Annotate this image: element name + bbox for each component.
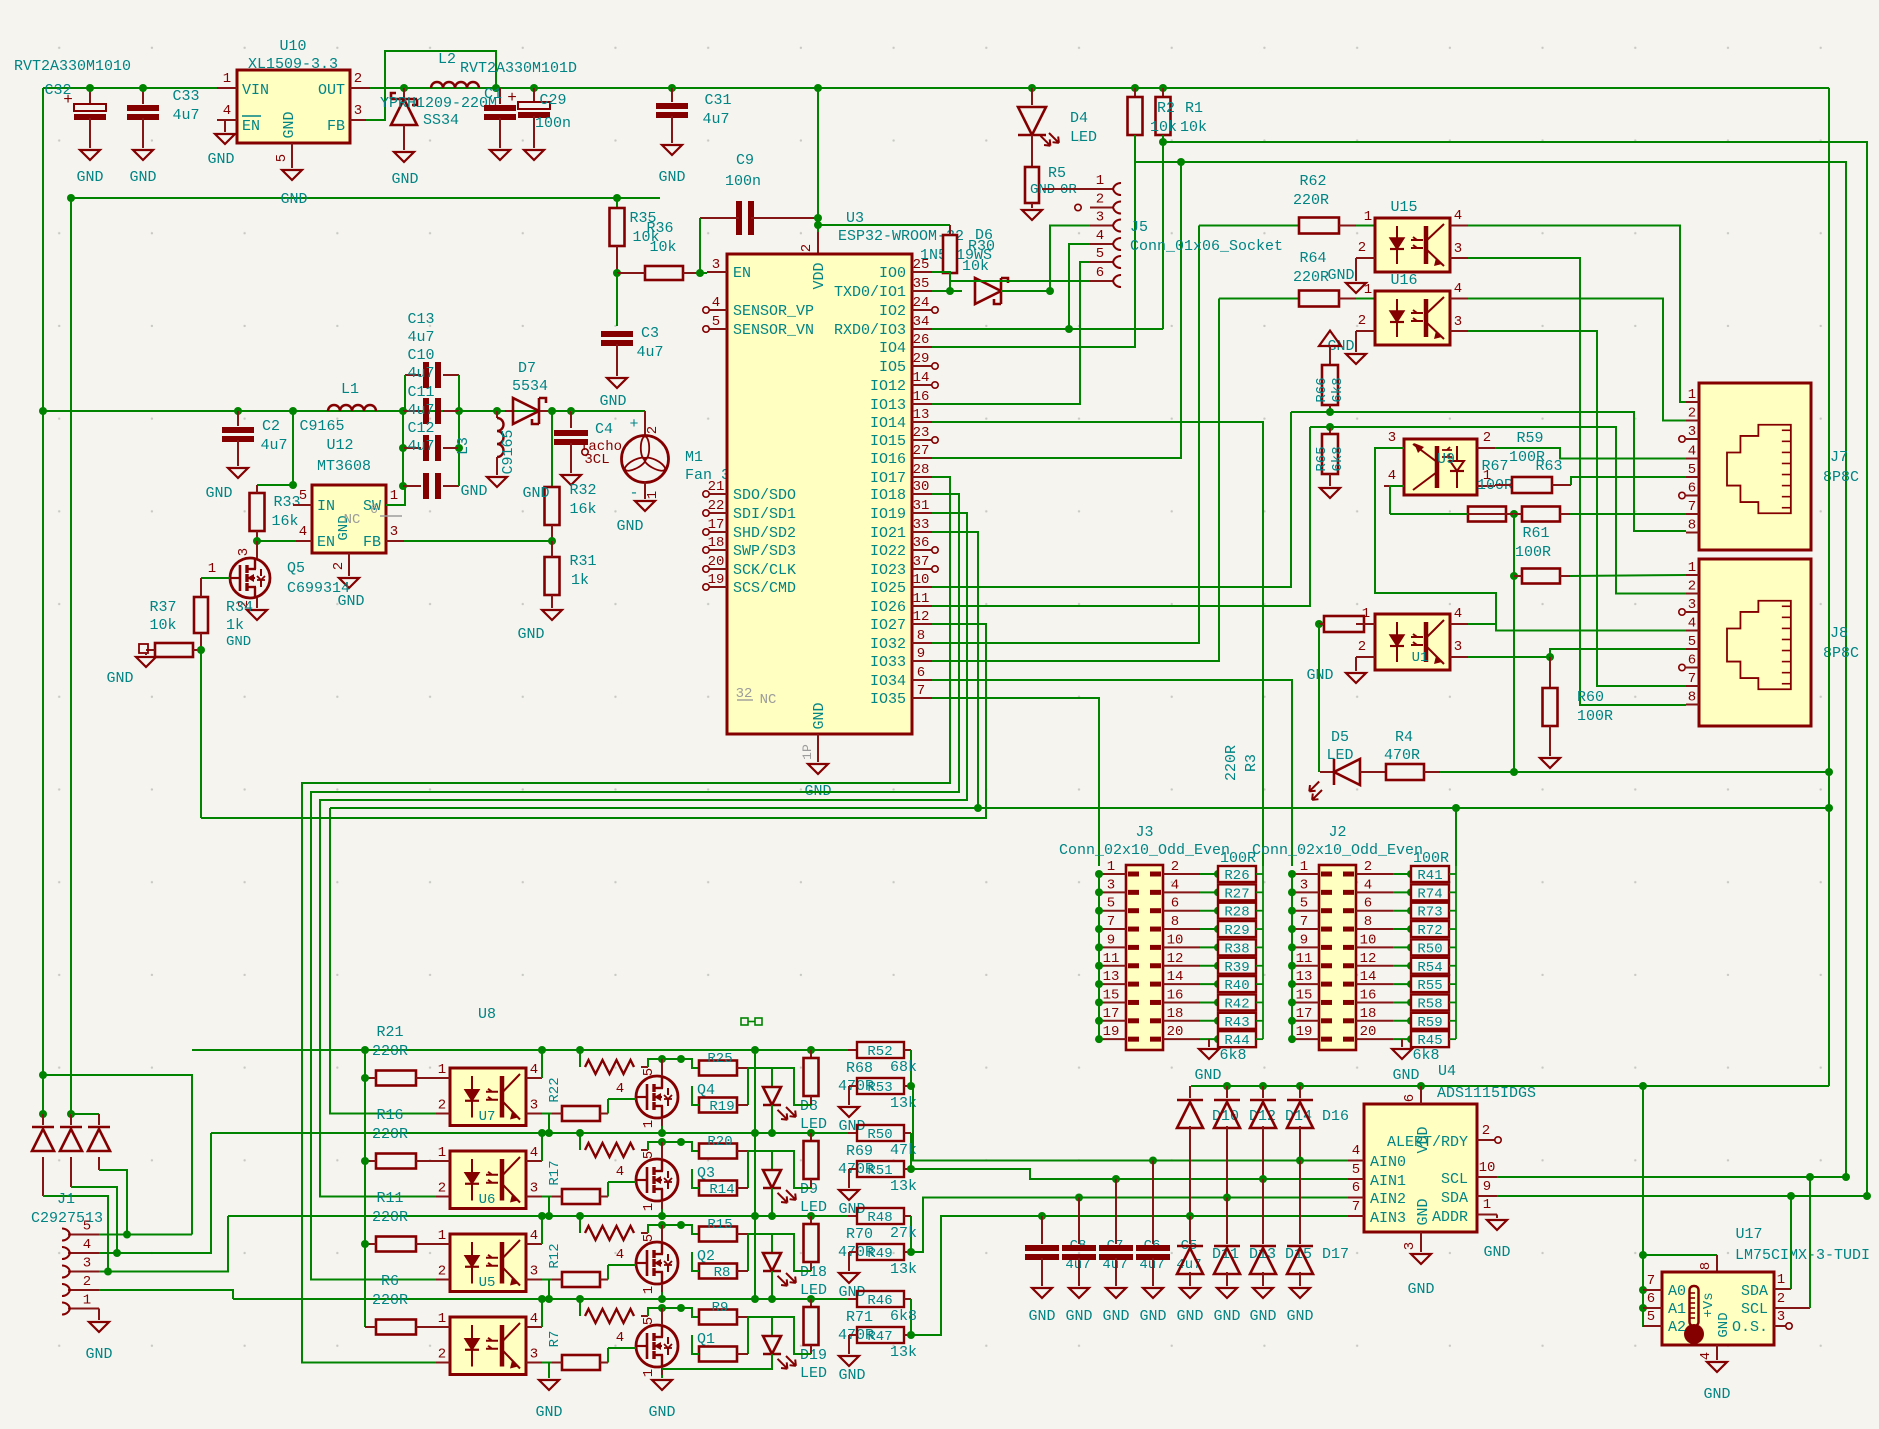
- svg-text:NC: NC: [344, 512, 361, 528]
- U3 pin 12 IO27: [870, 609, 932, 634]
- wire IO27 to bundle: [201, 624, 986, 818]
- svg-text:GND: GND: [616, 518, 643, 535]
- svg-text:10: 10: [913, 572, 930, 588]
- wire Q1 gate: [608, 1330, 715, 1348]
- LED D18 row3: [748, 1234, 827, 1299]
- transistor Q3 row2: [636, 1142, 678, 1211]
- wire J5 pin1 net: [1042, 188, 1090, 190]
- svg-text:GND: GND: [535, 1404, 562, 1421]
- svg-text:GND: GND: [226, 634, 251, 650]
- svg-text:R26: R26: [1224, 868, 1249, 884]
- svg-text:3: 3: [1107, 877, 1115, 893]
- resistor R66 6k8: [1314, 365, 1346, 412]
- LED D5: [1304, 624, 1360, 803]
- svg-text:R50: R50: [867, 1127, 892, 1143]
- svg-text:GND: GND: [1392, 1067, 1419, 1084]
- wire +Vs: [1643, 1255, 1717, 1272]
- svg-text:10: 10: [1479, 1160, 1496, 1176]
- svg-text:AIN1: AIN1: [1370, 1173, 1406, 1190]
- svg-text:4u7: 4u7: [172, 107, 199, 124]
- resistor R8 row3: [542, 1243, 608, 1287]
- labels R68-R71: [0, 0, 1, 1]
- wire IO21 wrap: [932, 532, 982, 812]
- svg-text:R11: R11: [376, 1190, 403, 1207]
- svg-text:LED: LED: [1326, 747, 1353, 764]
- capacitor C11: [399, 411, 463, 486]
- svg-text:20: 20: [1360, 1024, 1377, 1040]
- svg-text:13k: 13k: [890, 1178, 917, 1195]
- svg-text:IO14: IO14: [870, 415, 906, 432]
- svg-text:4: 4: [616, 1247, 624, 1263]
- resistor R52/R53 divider row1: [838, 1042, 917, 1135]
- IC U17 LM75CIMX-3-TUDI: [1662, 1226, 1870, 1345]
- svg-text:YPRH1209-220M: YPRH1209-220M: [380, 95, 497, 112]
- resistor R63 100R: [1495, 477, 1686, 493]
- resistor R15 row3: [681, 1217, 748, 1281]
- LED D19 row4: [748, 1317, 827, 1382]
- svg-text:7: 7: [917, 683, 925, 699]
- U3 pin 17 SHD/SD2: [703, 517, 796, 542]
- svg-text:SDA: SDA: [1741, 1283, 1768, 1300]
- svg-text:R28: R28: [1224, 905, 1249, 921]
- svg-text:U9: U9: [1437, 451, 1455, 468]
- svg-text:R40: R40: [1224, 978, 1249, 994]
- labels C13 C10 C11 C12: [407, 311, 434, 455]
- wire U1 pin4 net: [1468, 593, 1496, 624]
- svg-text:1P: 1P: [800, 744, 815, 760]
- U3 pin 3 EN: [707, 257, 751, 282]
- wire U17 supply branch: [1639, 1082, 1662, 1326]
- svg-text:O.S.: O.S.: [1732, 1319, 1768, 1336]
- wire U15 pin4 to J7 pin1: [1468, 226, 1699, 403]
- svg-text:5: 5: [1352, 1162, 1360, 1178]
- svg-text:6k8: 6k8: [1330, 446, 1346, 471]
- svg-text:1: 1: [1777, 1272, 1785, 1288]
- svg-text:SCS/CMD: SCS/CMD: [733, 580, 796, 597]
- LED D9 row2: [748, 1151, 827, 1216]
- U3 pin 20 SCK/CLK: [703, 554, 796, 579]
- wire IO0 to TXD node: [932, 272, 950, 291]
- U4 pin1 ADDR: [1477, 1197, 1511, 1261]
- svg-text:EN: EN: [242, 118, 260, 135]
- svg-text:GND: GND: [1102, 1308, 1129, 1325]
- svg-text:25: 25: [913, 257, 930, 273]
- svg-text:R53: R53: [867, 1080, 892, 1096]
- svg-text:U17: U17: [1735, 1226, 1762, 1243]
- power arrow R66: [1319, 331, 1341, 366]
- text RVT2A330M1010: [14, 58, 131, 75]
- svg-text:R59: R59: [1417, 1015, 1442, 1031]
- wire R19 link row1: [692, 1086, 699, 1105]
- svg-text:3: 3: [712, 257, 720, 273]
- svg-text:C9165: C9165: [500, 429, 517, 474]
- svg-text:R6: R6: [381, 1273, 399, 1290]
- svg-text:1: 1: [390, 488, 398, 504]
- U4 pin10 SCL: [1477, 1160, 1850, 1181]
- svg-text:1: 1: [641, 1369, 657, 1377]
- svg-text:D19: D19: [800, 1347, 827, 1364]
- svg-text:IO22: IO22: [870, 543, 906, 560]
- svg-text:R5: R5: [1048, 165, 1066, 182]
- svg-text:GND: GND: [85, 1346, 112, 1363]
- svg-text:C29: C29: [539, 92, 566, 109]
- svg-text:2: 2: [438, 1098, 446, 1114]
- pin3 FB: [350, 103, 366, 120]
- wire R18 left down row2: [549, 1197, 552, 1217]
- wire R65 net y427: [1310, 427, 1686, 594]
- svg-text:LED: LED: [800, 1365, 827, 1382]
- svg-text:6: 6: [1688, 481, 1696, 497]
- svg-text:R63: R63: [1535, 458, 1562, 475]
- svg-text:220R: 220R: [372, 1126, 408, 1143]
- U3 pin 31 IO19: [870, 498, 932, 523]
- svg-text:R7: R7: [547, 1331, 563, 1348]
- wire pin3 gate row4: [607, 1348, 609, 1363]
- svg-text:7: 7: [1107, 914, 1115, 930]
- wire U9 pin3 to J8 pin4: [1375, 448, 1686, 631]
- svg-text:4u7: 4u7: [407, 365, 434, 382]
- svg-text:R69: R69: [846, 1143, 873, 1160]
- resistor R31 1k: [517, 541, 596, 643]
- pin2 OUT: [350, 71, 370, 88]
- svg-text:IO15: IO15: [870, 433, 906, 450]
- wire Q4 source: [661, 1118, 663, 1133]
- svg-text:R19: R19: [709, 1099, 734, 1115]
- svg-text:IO18: IO18: [870, 487, 906, 504]
- svg-text:11: 11: [913, 591, 930, 607]
- svg-text:17: 17: [1103, 1006, 1120, 1022]
- wire R66 net y412: [1291, 408, 1686, 531]
- capacitor C33: [127, 84, 200, 186]
- svg-text:R65: R65: [1314, 446, 1330, 471]
- svg-text:R27: R27: [1224, 886, 1249, 902]
- svg-text:5: 5: [641, 1151, 657, 1159]
- svg-text:U15: U15: [1390, 199, 1417, 216]
- svg-text:J7: J7: [1830, 449, 1848, 466]
- svg-text:26: 26: [913, 332, 930, 348]
- svg-text:GND: GND: [280, 191, 307, 208]
- svg-text:19: 19: [1103, 1024, 1120, 1040]
- svg-text:9: 9: [1483, 1179, 1491, 1195]
- resistor R68 470R row1: [772, 1050, 874, 1105]
- svg-text:2: 2: [1358, 240, 1366, 256]
- svg-text:22: 22: [708, 498, 725, 514]
- svg-text:12: 12: [913, 609, 930, 625]
- svg-text:6k8: 6k8: [1412, 1047, 1439, 1064]
- svg-text:1: 1: [438, 1228, 446, 1244]
- svg-text:68k: 68k: [890, 1059, 917, 1076]
- svg-text:31: 31: [913, 498, 930, 514]
- J8 pins: [1679, 560, 1699, 706]
- svg-text:11: 11: [1103, 951, 1120, 967]
- svg-text:220R: 220R: [372, 1043, 408, 1060]
- resistor R2 10k: [1128, 84, 1143, 162]
- svg-text:3: 3: [530, 1181, 538, 1197]
- svg-text:6: 6: [1352, 1180, 1360, 1196]
- wire FB net: [404, 537, 556, 545]
- wire R18 left down row3: [549, 1280, 552, 1300]
- svg-text:RXD0/IO3: RXD0/IO3: [834, 322, 906, 339]
- svg-text:1: 1: [645, 491, 661, 499]
- U4 pin6 VDD: [1402, 1082, 1425, 1104]
- svg-text:6: 6: [1171, 896, 1179, 912]
- pin5 GND U10: [274, 143, 308, 208]
- regulator U10 XL1509-3.3: [237, 38, 350, 143]
- transistor Q4 row1: [636, 1059, 678, 1128]
- svg-text:C2927513: C2927513: [31, 1210, 103, 1227]
- svg-text:9: 9: [917, 646, 925, 662]
- svg-text:IO4: IO4: [879, 340, 906, 357]
- svg-text:GND: GND: [1065, 1308, 1092, 1325]
- U3 pin 36 IO22: [870, 535, 938, 560]
- inductor L1: [299, 381, 376, 435]
- U3 pin 33 IO21: [870, 517, 932, 542]
- svg-text:3: 3: [1454, 314, 1462, 330]
- svg-text:17: 17: [1296, 1006, 1313, 1022]
- wire left +V bus x=43: [42, 88, 44, 1114]
- resistor R65 6k8: [1314, 423, 1346, 498]
- svg-text:10k: 10k: [649, 239, 676, 256]
- capacitor C32: [44, 82, 106, 186]
- U4 pin5 AIN1: [1348, 1162, 1364, 1179]
- U16 pin2 gnd: [1327, 331, 1366, 364]
- capacitor C5 4u7: [1136, 1157, 1202, 1326]
- wire +V top rail y=88: [43, 87, 1829, 89]
- svg-text:1: 1: [1483, 1197, 1491, 1213]
- svg-text:3: 3: [390, 524, 398, 540]
- svg-text:IO5: IO5: [879, 359, 906, 376]
- wire rail row3: [228, 1212, 848, 1299]
- wire Q1 source gnd: [648, 1363, 772, 1421]
- label R21: [372, 1024, 408, 1060]
- svg-text:R17: R17: [547, 1160, 563, 1185]
- wire zigzag R17 row2: [580, 1133, 685, 1157]
- svg-text:TXD0/IO1: TXD0/IO1: [834, 284, 906, 301]
- wire IO32 riser: [932, 226, 1199, 644]
- svg-text:U8: U8: [478, 1006, 496, 1023]
- svg-text:D5: D5: [1331, 729, 1349, 746]
- svg-text:27k: 27k: [890, 1225, 917, 1242]
- svg-text:34: 34: [913, 314, 930, 330]
- diode D21: [71, 1114, 127, 1234]
- svg-text:R22: R22: [547, 1077, 563, 1102]
- wire opto pin4 up row2: [541, 1133, 543, 1161]
- U17 pin6 A1: [1643, 1291, 1662, 1308]
- svg-text:3: 3: [1688, 424, 1696, 440]
- svg-text:1: 1: [1362, 606, 1370, 622]
- svg-text:IO16: IO16: [870, 451, 906, 468]
- svg-text:GND: GND: [1194, 1067, 1221, 1084]
- resistor R71 470R row4: [772, 1299, 874, 1354]
- svg-text:4: 4: [1454, 606, 1462, 622]
- wire +V right drop: [1828, 88, 1830, 1086]
- svg-text:Conn_01x06_Socket: Conn_01x06_Socket: [1130, 238, 1283, 255]
- svg-text:L2: L2: [438, 51, 456, 68]
- svg-text:GND: GND: [1703, 1386, 1730, 1403]
- wire zigzag R22 row1: [580, 1050, 685, 1074]
- svg-text:3: 3: [530, 1347, 538, 1363]
- svg-text:IO32: IO32: [870, 636, 906, 653]
- wire J1 pin5 rail1: [99, 1075, 192, 1239]
- svg-text:7: 7: [1647, 1273, 1655, 1289]
- svg-text:GND: GND: [1407, 1281, 1434, 1298]
- capacitor C13: [405, 362, 459, 411]
- svg-text:5: 5: [1688, 462, 1696, 478]
- svg-text:R20: R20: [707, 1134, 732, 1150]
- svg-text:GND: GND: [391, 171, 418, 188]
- svg-text:14: 14: [913, 370, 930, 386]
- U15 pin2 gnd: [1327, 258, 1366, 293]
- svg-text:GND: GND: [106, 670, 133, 687]
- wire J1 pin1 gnd: [85, 1309, 112, 1364]
- LED D4: [1018, 84, 1097, 166]
- svg-text:J3: J3: [1135, 824, 1153, 841]
- svg-text:15: 15: [1296, 987, 1313, 1003]
- resistor R32 16k: [522, 482, 596, 541]
- svg-text:C12: C12: [407, 420, 434, 437]
- svg-text:+: +: [629, 416, 638, 433]
- svg-text:1: 1: [83, 1293, 91, 1309]
- svg-text:220R: 220R: [1293, 192, 1329, 209]
- svg-text:R1: R1: [1185, 100, 1203, 117]
- resistor to J8 pin1: [1514, 569, 1686, 584]
- wire row2 to AIN1: [911, 1169, 1348, 1179]
- wire IO25 riser: [932, 412, 1291, 587]
- wire U16 pin4 to J7 pin2: [1468, 299, 1699, 421]
- svg-text:R66: R66: [1314, 377, 1330, 402]
- wire IO26 riser: [932, 427, 1310, 606]
- svg-text:R59: R59: [1516, 430, 1543, 447]
- svg-text:16k: 16k: [271, 513, 298, 530]
- diode D2: [32, 1110, 108, 1272]
- svg-text:D16: D16: [1322, 1108, 1349, 1125]
- svg-text:R14: R14: [709, 1182, 734, 1198]
- svg-text:3: 3: [530, 1264, 538, 1280]
- wire left bus x=71: [70, 198, 72, 1114]
- svg-text:7: 7: [1688, 499, 1696, 515]
- svg-text:1: 1: [641, 1120, 657, 1128]
- svg-text:220R: 220R: [372, 1292, 408, 1309]
- svg-text:GND: GND: [1028, 1308, 1055, 1325]
- svg-text:2: 2: [1171, 859, 1179, 875]
- wire Q2 source: [661, 1284, 663, 1299]
- svg-text:10k: 10k: [1150, 119, 1177, 136]
- svg-text:2: 2: [1358, 639, 1366, 655]
- resistor R61 100R: [1506, 507, 1686, 562]
- wire RXD pullup riser: [1159, 138, 1167, 329]
- svg-text:4u7: 4u7: [260, 437, 287, 454]
- svg-text:GND: GND: [517, 626, 544, 643]
- svg-text:3: 3: [1688, 597, 1696, 613]
- svg-text:RVT2A330M1010: RVT2A330M1010: [14, 58, 131, 75]
- svg-text:3: 3: [1777, 1309, 1785, 1325]
- svg-text:1: 1: [223, 71, 231, 87]
- U12 pin3 FB: [386, 524, 404, 541]
- svg-text:C11: C11: [407, 384, 434, 401]
- wire R7 gnd row4: [535, 1363, 562, 1422]
- svg-text:5: 5: [1647, 1309, 1655, 1325]
- wire IO13 to J5 pin5: [932, 262, 1090, 404]
- J7 pins: [1679, 387, 1699, 534]
- svg-text:5: 5: [299, 488, 307, 504]
- svg-text:IO33: IO33: [870, 654, 906, 671]
- svg-text:24: 24: [913, 295, 930, 311]
- svg-text:1: 1: [438, 1062, 446, 1078]
- svg-text:R39: R39: [1224, 960, 1249, 976]
- wire IO19 wrap: [320, 513, 967, 1197]
- U3 pin 6 IO34: [870, 665, 932, 690]
- svg-text:13k: 13k: [890, 1261, 917, 1278]
- svg-text:GND: GND: [1139, 1308, 1166, 1325]
- svg-text:4: 4: [1688, 444, 1696, 460]
- U12 pin1 SW: [386, 488, 405, 505]
- wire row3 to AIN2: [911, 1198, 1348, 1253]
- svg-text:5: 5: [712, 314, 720, 330]
- svg-text:GND: GND: [1716, 1312, 1732, 1337]
- svg-text:470R: 470R: [1384, 747, 1420, 764]
- fan M1 Fan 3pin: [571, 411, 757, 535]
- svg-text:J2: J2: [1328, 824, 1346, 841]
- wire Q3 gate: [608, 1164, 715, 1182]
- svg-text:4u7: 4u7: [636, 344, 663, 361]
- svg-text:220R: 220R: [1293, 269, 1329, 286]
- resistor R16 220R input row2: [361, 1154, 436, 1169]
- svg-text:4: 4: [1096, 228, 1104, 244]
- capacitor C4: [548, 407, 622, 485]
- svg-text:8: 8: [1688, 518, 1696, 534]
- label R6: [372, 1273, 408, 1309]
- svg-text:4: 4: [616, 1164, 624, 1180]
- svg-text:5: 5: [1300, 896, 1308, 912]
- svg-text:FB: FB: [363, 534, 381, 551]
- wire IO18 wrap: [311, 494, 959, 1280]
- U4 pin7 AIN3: [1348, 1199, 1364, 1216]
- wire x1514 drop: [1510, 514, 1518, 776]
- svg-text:10k: 10k: [1180, 119, 1207, 136]
- wire RXD to J5 pin4: [1069, 244, 1090, 329]
- svg-text:6k8: 6k8: [1219, 1047, 1246, 1064]
- svg-text:SCL: SCL: [1441, 1171, 1468, 1188]
- svg-text:4: 4: [1364, 877, 1372, 893]
- svg-text:5534: 5534: [512, 378, 548, 395]
- svg-text:3: 3: [83, 1256, 91, 1272]
- svg-text:7: 7: [1688, 671, 1696, 687]
- svg-text:R47: R47: [867, 1329, 892, 1345]
- svg-text:1: 1: [641, 1286, 657, 1294]
- resistor R25 row1: [681, 1051, 748, 1115]
- svg-text:R67: R67: [1481, 458, 1508, 475]
- connector J5: [1075, 173, 1283, 287]
- svg-text:4: 4: [1688, 616, 1696, 632]
- label R11: [372, 1190, 408, 1226]
- svg-text:4: 4: [1454, 208, 1462, 224]
- svg-text:LED: LED: [1070, 129, 1097, 146]
- svg-text:OUT: OUT: [318, 82, 345, 99]
- U3 pin 14 IO12: [870, 370, 938, 395]
- svg-text:2: 2: [83, 1274, 91, 1290]
- svg-text:C4: C4: [595, 421, 613, 438]
- svg-text:GND: GND: [1415, 1198, 1432, 1225]
- svg-text:6k8: 6k8: [1330, 377, 1346, 402]
- svg-text:R62: R62: [1299, 173, 1326, 190]
- wire VDD drop: [799, 84, 822, 254]
- svg-text:4: 4: [1171, 877, 1179, 893]
- wire pin3 net row3: [607, 1265, 609, 1280]
- svg-text:R51: R51: [867, 1163, 892, 1179]
- svg-text:1: 1: [1300, 859, 1308, 875]
- svg-text:D4: D4: [1070, 110, 1088, 127]
- pin4 EN: [207, 103, 237, 168]
